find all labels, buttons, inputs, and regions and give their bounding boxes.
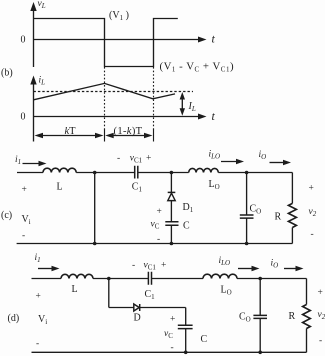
- capacitor CO branch wire (c): [246, 173, 248, 215]
- resistor R zigzag (d): [303, 305, 311, 329]
- current arrow i1 (d): [38, 268, 53, 270]
- current arrow iO (c): [270, 162, 285, 164]
- wire C1 to LO (c): [138, 172, 189, 174]
- inductor LO (d): [203, 274, 237, 278]
- svg-text:(1-k)T: (1-k)T: [114, 126, 143, 137]
- resistor R zigzag (c): [288, 203, 296, 227]
- (1-k)T dimension arrows: [111, 135, 147, 137]
- svg-text:-: -: [311, 230, 314, 240]
- axis t (graph b): [34, 116, 201, 118]
- right branch top (d): [306, 279, 308, 305]
- capacitor CO branch wire (d): [259, 279, 261, 316]
- wire CO to bottom (c): [246, 218, 248, 243]
- diode branch horizontal wire left (d): [109, 307, 134, 309]
- capacitor C plates (d): [178, 325, 193, 328]
- current arrow i1 (c): [23, 163, 41, 165]
- bottom wire (c): [17, 243, 293, 245]
- node dot bottom A (d): [184, 351, 188, 355]
- wire L to C1 (d): [93, 278, 148, 280]
- current arrow iO (d): [284, 268, 297, 270]
- svg-text:R: R: [289, 311, 296, 322]
- diode branch horizontal wire right (d): [140, 307, 186, 309]
- axis iL vertical: [33, 80, 35, 142]
- axis vL vertical: [33, 6, 35, 67]
- diode D1 triangle (c): [168, 193, 175, 200]
- svg-text:+: +: [170, 315, 175, 325]
- right branch bottom (c): [291, 228, 293, 244]
- svg-text:(b): (b): [1, 68, 13, 79]
- svg-text:L: L: [72, 284, 78, 295]
- svg-text:D: D: [134, 313, 141, 324]
- axis t (graph a): [34, 39, 201, 41]
- diode D1 bar (c): [168, 191, 176, 193]
- diode D bar (d): [139, 304, 141, 311]
- wire C to bottom (c): [170, 225, 172, 243]
- svg-text:(V1 ): (V1 ): [109, 10, 129, 22]
- wire top left (d): [32, 278, 62, 280]
- svg-text:vL: vL: [38, 0, 46, 10]
- node dot top A (d): [107, 277, 111, 281]
- inductor LO (c): [189, 168, 219, 172]
- axis t arrowhead (graph a): [198, 37, 207, 43]
- svg-text:-: -: [22, 231, 25, 241]
- node dot bottom A (c): [93, 242, 97, 246]
- tick at x=104 (dimension): [104, 130, 106, 142]
- current arrow iLO (c): [221, 161, 238, 163]
- node dot top B (d): [258, 277, 262, 281]
- wire CO to bottom (d): [259, 319, 261, 353]
- svg-text:(d): (d): [8, 313, 20, 324]
- right branch bottom (d): [306, 329, 308, 353]
- svg-text:-: -: [132, 261, 135, 271]
- dashed average line IL: [34, 91, 194, 93]
- node dot bottom C (c): [245, 242, 249, 246]
- svg-text:+: +: [318, 288, 323, 298]
- dotted line below falling edge x=104: [104, 67, 106, 130]
- wire C to bottom (d): [185, 329, 187, 353]
- svg-text:-: -: [171, 343, 174, 353]
- capacitor C1 plates (d): [148, 272, 151, 285]
- wire top left (c): [17, 172, 43, 174]
- svg-text:R: R: [275, 212, 282, 223]
- node dot bottom B (c): [170, 242, 174, 246]
- svg-text:+: +: [309, 184, 314, 194]
- dotted line below rising edge x=153.5: [153, 67, 155, 130]
- tick at x=153.5 (dimension): [153, 130, 155, 142]
- inductor L (c): [43, 168, 76, 172]
- axis vL arrowhead: [30, 2, 36, 11]
- wire L to C1 (c): [76, 172, 134, 174]
- triangle wave iL: [34, 83, 176, 99]
- capacitor C1 plates (c): [135, 166, 138, 179]
- svg-text:-: -: [36, 339, 39, 349]
- svg-text:C: C: [183, 221, 190, 232]
- capacitor CO plates (c): [240, 215, 254, 218]
- node dot top C (c): [245, 171, 249, 175]
- current arrow iLO (d): [238, 268, 253, 270]
- svg-text:0: 0: [21, 112, 26, 123]
- svg-text:-: -: [157, 235, 160, 245]
- axis t arrowhead (graph b): [198, 114, 207, 120]
- node dot bottom B (d): [258, 351, 262, 355]
- svg-text:+: +: [146, 154, 151, 164]
- wire C1 to LO (d): [152, 278, 203, 280]
- svg-text:-: -: [117, 154, 120, 164]
- diode D1 branch wire (c): [170, 173, 172, 193]
- svg-text:+: +: [161, 261, 166, 271]
- wire down to C (d): [185, 308, 187, 326]
- svg-text:0: 0: [21, 35, 26, 46]
- wire D1 to C (c): [170, 201, 172, 222]
- inductor L (d): [61, 274, 93, 278]
- wire LO to right corner (d): [237, 278, 307, 280]
- svg-text:kT: kT: [65, 126, 77, 137]
- IL double arrow: [181, 96, 183, 112]
- square wave vL: [34, 19, 178, 67]
- svg-text:-: -: [319, 336, 322, 346]
- svg-text:+: +: [22, 185, 27, 195]
- svg-text:(c): (c): [1, 210, 12, 221]
- wire LO to right corner (c): [218, 172, 292, 174]
- capacitor C plates (c): [165, 222, 178, 225]
- bottom wire (d): [32, 351, 307, 353]
- capacitor CO plates (d): [253, 315, 267, 318]
- switch closed wire (c): [94, 173, 96, 244]
- node dot top A (c): [93, 171, 97, 175]
- right branch top (c): [291, 173, 293, 204]
- node dot top B (c): [170, 171, 174, 175]
- diode branch drop wire (d): [108, 279, 110, 308]
- kT dimension arrows: [41, 135, 97, 137]
- svg-text:L: L: [57, 182, 63, 193]
- diode D triangle (d): [134, 304, 139, 311]
- svg-text:C: C: [201, 334, 208, 345]
- axis iL arrowhead: [30, 76, 36, 85]
- svg-text:+: +: [36, 292, 41, 302]
- svg-text:+: +: [157, 207, 162, 217]
